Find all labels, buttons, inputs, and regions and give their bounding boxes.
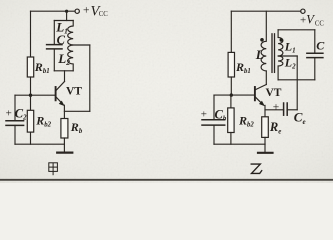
label C2 (left) (6, 106, 28, 121)
wire: Cb branch lower (213, 125, 215, 144)
resistor Rb (left emitter resistor) (61, 119, 68, 139)
wire: tank left branch lower (53, 50, 55, 71)
wire: cap C branch lower (314, 58, 316, 80)
wire: emitter to Ce (265, 109, 284, 111)
wire: right base line (214, 94, 254, 96)
wire: feedback vertical (89, 45, 91, 111)
wire: base to Rb2 (30, 95, 32, 110)
wire: Cb branch upper (213, 95, 215, 119)
resistor Rb2 (left) (27, 110, 33, 132)
wire: left top rail (31, 10, 76, 12)
label 甲 (49, 163, 58, 175)
wire: Ce to feedback vertical (287, 109, 297, 111)
capacitor C (left tank) (47, 45, 62, 49)
node: right base junction dot (230, 93, 233, 96)
svg-text:+: + (300, 14, 306, 26)
wire: tank top stub (66, 11, 68, 20)
ground (left) (57, 144, 72, 152)
svg-text:L: L (255, 47, 264, 62)
node: base junction dot (29, 94, 32, 97)
ground (right) (258, 144, 273, 153)
wire: tank box bottom edge (54, 70, 73, 72)
svg-text:VT: VT (266, 87, 282, 99)
wire: Rb2 to ground rail (30, 132, 32, 144)
svg-text:+: + (6, 108, 12, 120)
wire: base to Rb2 (230, 95, 232, 108)
label Cb (right) (201, 107, 227, 122)
svg-text:+: + (273, 102, 280, 114)
resistor Re (right emitter resistor) (262, 117, 269, 138)
wire: right ground rail (214, 143, 265, 145)
wire: tank box top edge (54, 20, 73, 22)
wire: coil tap to feedback (73, 44, 90, 46)
inductor L (primary winding) (261, 11, 266, 71)
node: primary polarity dot (260, 38, 264, 42)
inductor L1 L2 (left tapped coil) (68, 21, 73, 71)
capacitor Cb (right electrolytic) (202, 120, 225, 125)
wire: secondary top lead (277, 30, 279, 38)
node: junction dot on left top rail (65, 10, 68, 13)
wire: right rail left vertical (230, 11, 232, 52)
wire: left ground rail (15, 143, 64, 145)
wire: left base line (15, 94, 55, 96)
wire: emitter node to feedback (64, 110, 89, 112)
wire: tank left branch upper (53, 21, 55, 44)
wire: secondary tap line (278, 55, 297, 57)
capacitor Ce (emitter bypass) (284, 103, 288, 115)
wire: Re to ground rail (264, 137, 266, 144)
svg-text:+: + (83, 5, 90, 17)
wire: C2 branch upper (14, 95, 16, 120)
wire: left rail upper segment (30, 11, 32, 57)
svg-text:+: + (201, 108, 207, 120)
wire: tank bottom edge (right) (278, 79, 315, 81)
wire: tank bottom to collector (64, 71, 66, 82)
svg-text:CC: CC (315, 20, 325, 27)
wire: Rb1 to base (30, 77, 32, 95)
resistor Rb1 (left) (27, 57, 33, 77)
wire: Rb2 to ground rail (230, 133, 232, 145)
transistor VT (right) (255, 85, 266, 117)
wire: Rb1 to base line (230, 77, 232, 95)
transistor VT (left) (56, 82, 65, 119)
label +Vcc (left) (83, 3, 108, 19)
wire: right top rail (231, 10, 300, 12)
wire: tap feedback vertical (296, 56, 298, 110)
transformer core (272, 34, 275, 73)
wire: tank top edge (right) (278, 29, 315, 31)
label +Vcc (right) (300, 13, 324, 28)
inductor L1 L2 (secondary winding) (278, 37, 283, 79)
svg-text:VT: VT (66, 86, 82, 98)
label 乙 (251, 164, 262, 173)
resistor Rb1 (right) (228, 52, 234, 77)
node: right +Vcc terminal circle (301, 9, 305, 13)
svg-text:C: C (57, 33, 66, 47)
capacitor C (right tank) (307, 53, 323, 57)
wire: Rb to ground rail (63, 138, 65, 144)
wire: collector vertical (265, 71, 267, 85)
resistor Rb2 (right) (228, 108, 234, 133)
svg-text:C: C (316, 39, 325, 53)
capacitor C2 (left electrolytic) (6, 121, 24, 126)
wire: cap C branch upper (314, 30, 316, 53)
page rule at bottom (0, 179, 333, 181)
node: left +Vcc terminal circle (75, 9, 79, 13)
node: secondary polarity dot (280, 38, 284, 42)
wire: C2 branch lower (14, 125, 16, 144)
svg-text:CC: CC (99, 11, 109, 18)
